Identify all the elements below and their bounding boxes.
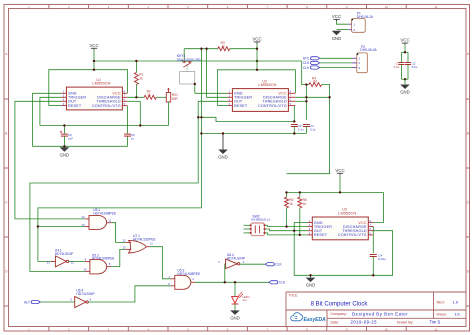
svg-text:CONTROL/VTG: CONTROL/VTG xyxy=(338,233,367,237)
svg-text:10: 10 xyxy=(83,268,87,272)
svg-text:12: 12 xyxy=(71,260,75,264)
svg-text:TITLE:: TITLE: xyxy=(289,294,299,298)
svg-text:VCC: VCC xyxy=(332,14,341,19)
svg-text:EasyEDA: EasyEDA xyxy=(304,317,327,323)
svg-text:1m: 1m xyxy=(242,298,247,302)
svg-text:11: 11 xyxy=(47,260,50,264)
svg-text:Date:: Date: xyxy=(331,321,340,325)
svg-text:GND: GND xyxy=(400,90,410,95)
svg-text:12: 12 xyxy=(82,215,86,219)
svg-text:11: 11 xyxy=(108,218,111,222)
svg-text:10: 10 xyxy=(385,5,389,9)
svg-text:LM555CN: LM555CN xyxy=(338,210,356,215)
svg-text:DHS-06-2A: DHS-06-2A xyxy=(357,15,374,19)
svg-text:CLK: CLK xyxy=(275,263,282,267)
svg-text:GND: GND xyxy=(218,155,228,160)
svg-text:CLK: CLK xyxy=(303,66,310,70)
svg-text:1uF: 1uF xyxy=(68,136,73,140)
svg-text:RESET: RESET xyxy=(234,104,248,108)
svg-text:1k: 1k xyxy=(139,77,143,81)
svg-text:DHS-06-3A: DHS-06-3A xyxy=(360,48,377,52)
svg-text:8 Bit Computer Clock: 8 Bit Computer Clock xyxy=(311,301,369,307)
svg-text:HD74LS04P: HD74LS04P xyxy=(55,252,74,256)
svg-text:RESET: RESET xyxy=(68,104,82,108)
svg-text:CONTROL/VTG: CONTROL/VTG xyxy=(258,104,287,108)
svg-text:CLK: CLK xyxy=(279,281,286,285)
svg-text:0.1u: 0.1u xyxy=(412,65,418,69)
svg-text:2019-09-25: 2019-09-25 xyxy=(351,320,378,325)
svg-text:0.1u: 0.1u xyxy=(394,65,400,69)
svg-text:0.1u: 0.1u xyxy=(298,128,304,132)
svg-text:11: 11 xyxy=(434,328,437,332)
svg-text:STC: STC xyxy=(303,57,310,61)
svg-text:HD74LS32PEE: HD74LS32PEE xyxy=(133,237,157,241)
svg-text:1u: 1u xyxy=(131,136,135,140)
svg-text:Company:: Company: xyxy=(331,312,347,316)
svg-text:HD74LS08PEE: HD74LS08PEE xyxy=(93,212,117,216)
svg-text:GND: GND xyxy=(332,36,342,41)
svg-text:12: 12 xyxy=(123,239,127,243)
svg-text:0.01u: 0.01u xyxy=(378,257,386,261)
svg-text:1k: 1k xyxy=(147,93,151,97)
svg-text:13: 13 xyxy=(82,223,86,227)
svg-text:CLK: CLK xyxy=(303,61,310,65)
svg-text:RESET: RESET xyxy=(314,233,328,237)
svg-text:VCC: VCC xyxy=(400,38,409,43)
svg-text:KS-B001D-L1: KS-B001D-L1 xyxy=(251,217,270,221)
svg-text:LM555CN: LM555CN xyxy=(92,81,110,86)
svg-text:10: 10 xyxy=(385,328,389,332)
svg-text:CONTROL/VTG: CONTROL/VTG xyxy=(92,104,121,108)
svg-text:GND: GND xyxy=(306,283,316,288)
svg-text:VCC: VCC xyxy=(252,36,261,41)
svg-text:11: 11 xyxy=(434,5,437,9)
svg-text:VCC: VCC xyxy=(335,168,344,173)
svg-text:50R: 50R xyxy=(172,97,179,101)
svg-text:REV:: REV: xyxy=(437,300,445,304)
svg-text:1k: 1k xyxy=(289,202,293,206)
svg-text:2SA-Q1000-250: 2SA-Q1000-250 xyxy=(177,58,201,62)
svg-text:11: 11 xyxy=(150,242,153,246)
svg-text:1k: 1k xyxy=(221,44,225,48)
svg-text:Sheet:: Sheet: xyxy=(436,312,446,316)
svg-text:1M: 1M xyxy=(312,80,317,84)
svg-text:VCC: VCC xyxy=(89,43,98,48)
svg-text:1/1: 1/1 xyxy=(455,311,461,316)
svg-text:GND: GND xyxy=(230,315,240,320)
svg-text:0.1u: 0.1u xyxy=(310,128,316,132)
svg-text:LM555CN: LM555CN xyxy=(258,82,276,87)
svg-text:1k: 1k xyxy=(303,202,307,206)
svg-text:1.0: 1.0 xyxy=(453,300,459,305)
svg-text:Designed By Ben Eater: Designed By Ben Eater xyxy=(352,311,408,316)
svg-text:Tim S: Tim S xyxy=(430,320,441,325)
svg-text:HD74LS04P: HD74LS04P xyxy=(76,292,95,296)
svg-text:GND: GND xyxy=(60,152,70,157)
svg-text:HLT: HLT xyxy=(24,300,30,304)
svg-text:Drawn By:: Drawn By: xyxy=(397,321,414,325)
